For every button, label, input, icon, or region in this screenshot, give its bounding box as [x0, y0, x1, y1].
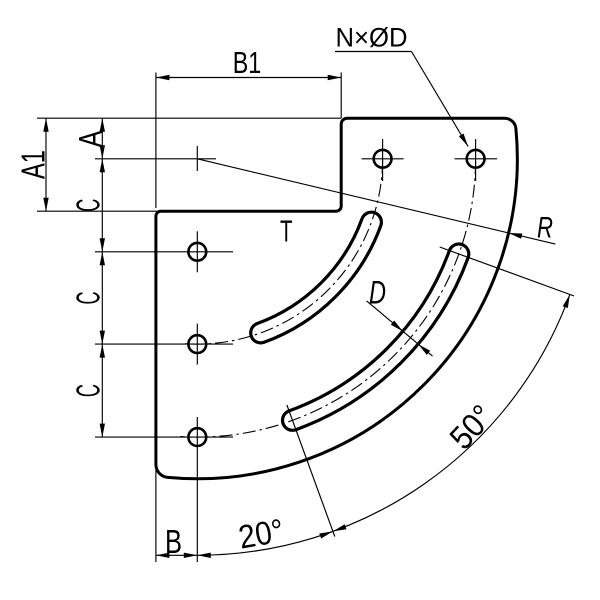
centerlines of top hole 1	[362, 158, 404, 160]
svg-text:D: D	[369, 275, 386, 311]
inner arc slot r=185 20-70deg	[261, 222, 372, 333]
outer arc slot r=278 20-70deg	[293, 254, 459, 420]
svg-text:C: C	[70, 199, 107, 212]
top hole 2	[467, 150, 485, 168]
svg-text:B1: B1	[233, 45, 262, 80]
top hole 1	[374, 150, 392, 168]
centerlines of top hole 2	[455, 158, 498, 160]
svg-text:A: A	[72, 131, 109, 148]
svg-text:C: C	[70, 292, 107, 305]
extension line: radial at 20deg	[440, 247, 574, 296]
left hole 2	[188, 335, 206, 353]
dimension A1	[14, 118, 51, 211]
dimension B1	[156, 45, 341, 80]
extension line: left edge down to B	[155, 470, 157, 562]
svg-text:A1: A1	[14, 150, 51, 179]
left hole 1	[188, 243, 206, 261]
bottom hole	[188, 428, 206, 446]
extension line: notch edge up to B1	[340, 73, 342, 119]
svg-text:R: R	[537, 211, 553, 244]
angular dimension arc 20deg / 50deg	[197, 294, 570, 558]
svg-text:C: C	[70, 384, 107, 397]
dimension B	[156, 523, 197, 560]
radius dimension R	[197, 159, 555, 245]
bolt-circle centerline arc r=186	[183, 160, 383, 344]
svg-text:N×ØD: N×ØD	[336, 23, 408, 53]
centerline of bottom hole, extended down for angular dim	[95, 436, 233, 438]
centerline of left hole 2	[95, 343, 233, 345]
center mark horizontal at arc center	[95, 158, 216, 160]
svg-text:20°: 20°	[236, 511, 287, 555]
chained dimensions C C C	[70, 159, 107, 437]
svg-text:50°: 50°	[442, 397, 500, 456]
svg-text:B: B	[165, 523, 182, 560]
slot width dimension D	[367, 275, 433, 357]
dimension A	[72, 118, 109, 159]
extension line: radial at 70deg	[287, 405, 335, 537]
extension line: left edge up to B1	[155, 73, 157, 209]
centerline of left hole 1	[95, 251, 233, 253]
extension line: top edge extended left	[37, 117, 341, 119]
extension line: step edge extended left	[37, 210, 172, 212]
svg-text:T: T	[280, 214, 293, 249]
center mark vertical at arc center	[196, 146, 198, 171]
part outline: quarter-circle bracket plate	[156, 118, 517, 479]
leader NxØD to top hole 2	[335, 23, 468, 147]
bolt-circle centerline arc r=279	[180, 161, 475, 437]
